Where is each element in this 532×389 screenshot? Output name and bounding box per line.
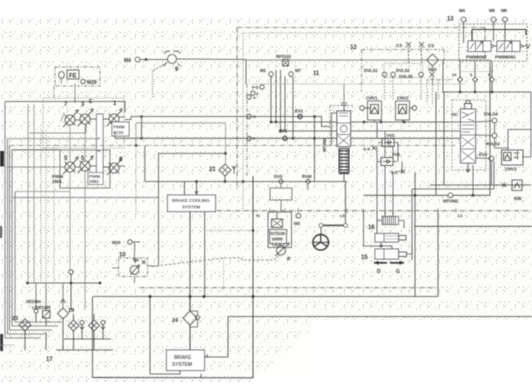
wire 7-3-manifold [75,119,97,120]
solenoid valve PWM6061 [497,41,530,52]
wire lower row feed [8,166,66,168]
top bus wire [472,30,526,42]
wire 5-S-manifold [75,166,97,167]
svg-text:CHV2: CHV2 [397,96,409,101]
filter pair A [68,320,79,331]
link riser [345,182,347,224]
faint mid rail [252,83,465,85]
bus line 4 [12,150,58,326]
lower valve box [12,149,60,151]
svg-text:M4: M4 [459,8,466,13]
small valve on y185 [512,180,522,191]
section dash-dot boundary y211 [190,210,532,212]
long line y316.5 [228,316,532,318]
filter 19 [58,308,69,319]
line y226 [415,225,532,227]
pump B [277,246,286,255]
svg-text:DVLS4: DVLS4 [484,112,498,117]
solenoid valve PWM6067 [468,41,504,52]
top wire from 9 to right [246,60,490,66]
CHV stems down [375,120,403,122]
dash-dot vertical section edge [53,86,55,98]
connector x141.5 [141,117,143,139]
bus line 2 [8,139,46,334]
left feed vertical xA [144,146,146,182]
brake feed [189,297,191,312]
PWM 2062 label [88,173,103,185]
sensor verticals down [271,70,293,138]
pilot net verticals [377,122,393,158]
svg-text:M4: M4 [124,58,131,64]
svg-text:10000: 10000 [272,237,284,242]
box 13 dashed [459,24,527,61]
svg-text:DVLS5: DVLS5 [399,74,413,79]
CHV3 box [502,150,524,165]
EV1 branch down [314,117,316,182]
svg-text:G: G [396,269,400,275]
bus line y117 [125,117,330,127]
svg-text:C2: C2 [428,43,434,49]
steering wheel [313,235,329,251]
svg-text:SCS100: SCS100 [270,231,286,236]
filter 24 bypass [196,316,200,320]
svg-text:CHV3: CHV3 [505,167,517,172]
M3 port [296,214,301,219]
svg-text:BRAKE: BRAKE [174,355,192,361]
svg-text:LS: LS [340,214,345,218]
dotted box upper valve row [43,98,124,148]
mechanical coupling dash [152,255,280,267]
right net wires [495,123,509,150]
brake box bottom loop [150,297,180,375]
svg-text:23: 23 [12,316,18,322]
unit 10 wires [112,242,135,283]
wire steering drain [205,230,253,232]
wire 9 drain diagonal [153,63,168,72]
bus line 5 [15,192,62,323]
OC work port to MTVM2 line [472,165,474,195]
dash-dot section line y145.5 [10,145,456,147]
scan edge artifacts [0,151,4,167]
tank to brake line [93,297,202,378]
filter pair B [89,320,100,331]
relief A [80,321,84,325]
bus line 1 [5,102,40,339]
square filter [43,311,51,319]
legs from collector [36,283,63,311]
svg-text:MTVM2: MTVM2 [443,199,459,204]
relief B [101,321,105,325]
scanned texture area [0,18,532,320]
tank bus lines [64,338,111,340]
svg-text:C3: C3 [396,43,402,49]
arrows D G [374,262,404,264]
feed line y153.4 [159,152,226,154]
svg-text:B: B [98,148,101,153]
bus line y122 [270,121,460,123]
FE label box [67,70,79,79]
wire 9-line corner down [245,60,247,84]
dashed pilot box [330,106,354,149]
svg-text:RVLS3: RVLS3 [486,142,500,147]
DVLS dashed box [384,64,423,78]
svg-text:⊢3: ⊢3 [252,85,259,90]
bus line y138.5 [115,132,460,138]
wire left link y133 [29,124,86,133]
OC dashed enclosure [452,100,486,170]
svg-text:M1: M1 [260,68,267,73]
svg-text:11: 11 [313,71,320,77]
pilot drops to OC [427,80,438,105]
svg-text:PWM6067: PWM6067 [466,55,487,60]
top port stub [341,103,347,111]
SCS100 assembly box [268,212,292,248]
riser right x438 [437,211,439,297]
dotted signal verticals [27,104,29,283]
left frame wire [13,197,159,199]
MTVM1 spring below [339,149,349,174]
steering column link [321,224,346,226]
port -3 [260,85,264,89]
OC spool valve [461,109,476,163]
vertical x158.5 down to pump 10 [158,153,160,266]
wire FE down [61,79,63,84]
frame line top [5,102,125,113]
svg-text:D: D [377,269,381,275]
svg-text:Ts: Ts [256,214,260,218]
work line y195.3 [364,194,491,196]
spring 16 (shimmy damper) [382,217,399,225]
svg-text:2601: 2601 [52,179,62,184]
gray verticals from valve rows down [69,125,71,162]
wire M4 to motor 9 [140,59,168,61]
svg-text:CHV1: CHV1 [366,96,378,101]
filter 21 bypass [232,166,236,174]
unit 10 pump [130,266,139,275]
port X [247,95,251,99]
SCS100 orbital valve [272,219,283,228]
svg-text:DV3: DV3 [274,174,283,179]
svg-text:VV2: VV2 [387,133,396,138]
column to wheel [320,227,322,235]
svg-text:9-X: 9-X [391,170,398,175]
tank return line y181.5 [145,181,347,183]
port P [247,136,251,140]
right riser [489,66,491,195]
valve drain down [343,172,345,182]
FE sensor box [55,67,100,86]
dash-dot boundary y288 [140,287,438,289]
svg-text:M29: M29 [87,80,97,86]
bottom right line y185 [430,184,531,186]
svg-text:RPS102: RPS102 [276,54,292,59]
svg-text:15: 15 [361,255,368,261]
svg-text:SES164: SES164 [26,299,42,304]
C3/C2 stems [409,47,422,63]
svg-text:DVLS2: DVLS2 [396,68,410,73]
svg-text:M10: M10 [112,240,121,245]
riser x412 to cylinder [411,189,413,254]
port line dash-dot [246,84,248,176]
svg-text:EV3: EV3 [479,152,488,157]
section 11 dash-dot box [237,28,485,60]
vertical risers left of OC [436,92,444,195]
svg-text:M6: M6 [501,8,508,13]
svg-text:M7: M7 [295,68,302,73]
XLD filter [427,54,439,66]
box outputs down [189,212,191,297]
bus line 3 [10,146,53,331]
wire 9 right [177,58,247,61]
svg-text:16: 16 [368,225,375,231]
svg-text:2062: 2062 [89,179,99,184]
svg-text:DVLS1: DVLS1 [364,68,378,73]
sensor post [34,309,38,313]
svg-text:EV1: EV1 [295,109,304,114]
sub box 22 [270,188,292,200]
svg-text:PWM: PWM [114,125,125,130]
svg-text:SYSTEM: SYSTEM [182,205,201,210]
svg-text:12: 12 [350,45,357,51]
light feed path around 21 area [136,123,226,164]
M4 port [135,57,140,62]
port N [247,114,251,118]
21 to tank line [224,176,226,182]
PWM 6133 box [112,122,129,136]
svg-text:RVM: RVM [302,174,312,179]
cylinder 15 [375,249,399,259]
svg-text:13: 13 [447,17,454,23]
work line y189 [412,161,494,189]
dotted drop x136 [135,146,137,216]
brake box right wire [205,317,229,358]
wires below box13 [460,61,492,77]
wire manifold-1 [103,118,109,120]
SCS100 coil [272,244,284,246]
svg-text:SYSTEM: SYSTEM [172,362,192,368]
collector wire [443,61,531,92]
coupling dotted drop [223,258,225,291]
svg-text:P: P [98,136,101,141]
supply line y296.5 [93,296,438,298]
svg-text:M3: M3 [294,221,301,226]
svg-text:21: 21 [209,167,216,173]
FE sensor circle [59,72,65,79]
filter 23 [19,319,31,331]
brake cooling system box [168,195,216,212]
svg-text:BRAKE COOLING: BRAKE COOLING [172,198,210,203]
feed into box [185,182,197,196]
brake system box [167,350,205,371]
cyl16 links [381,242,392,249]
svg-text:19: 19 [68,308,74,314]
riser x415 [414,172,416,297]
svg-text:M5: M5 [489,8,496,13]
svg-text:LS: LS [458,214,463,218]
svg-text:17: 17 [46,357,53,363]
steering cylinders riser wires [377,211,393,234]
bus line y131 [281,130,460,132]
svg-text:OC: OC [451,112,458,117]
manifold block [97,114,104,177]
svg-text:PWM6061: PWM6061 [495,55,516,60]
svg-text:MTVM1: MTVM1 [322,137,327,152]
svg-text:A-X: A-X [363,147,370,152]
motor 9 [168,55,177,64]
svg-text:EV2: EV2 [279,129,288,134]
junction dots y122 [363,121,365,123]
collector line y283 [27,282,101,284]
boundary ticks [253,208,456,213]
unit 10 box [119,258,148,277]
cylinder 16 [375,234,399,243]
OC top tab [465,104,472,110]
unit 10 check [133,258,139,262]
OC bottom arrow [466,163,470,172]
svg-text:24: 24 [172,318,179,324]
port above [69,270,73,274]
MTVM2 port [448,193,453,198]
svg-text:R36: R36 [514,196,522,201]
port 4 [251,91,255,95]
M29 port [81,79,85,83]
valve bypass left [332,113,338,146]
svg-text:FE: FE [69,74,77,80]
left margin artifact [0,344,14,346]
